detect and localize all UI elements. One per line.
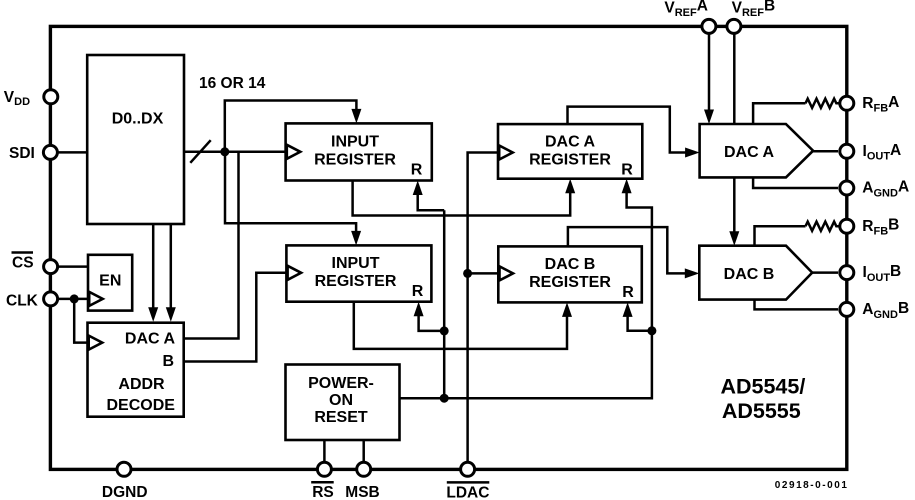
- svg-text:POWER-: POWER-: [308, 375, 374, 392]
- node CLK junction: [70, 294, 79, 303]
- wire VREFB to DAC B: [733, 177, 736, 233]
- wire DAC B register out to DAC B: [568, 227, 686, 273]
- svg-text:REGISTER: REGISTER: [529, 152, 611, 169]
- wire input register 1 data out to DAC A register: [353, 181, 571, 216]
- wire VREFA into DAC A: [708, 35, 711, 112]
- svg-text:DAC A: DAC A: [125, 331, 176, 348]
- svg-text:R: R: [622, 284, 634, 301]
- arrow into DAC A register R: [622, 179, 632, 194]
- svg-text:R: R: [411, 161, 423, 178]
- wire input register 1 R reset bend: [418, 194, 445, 210]
- wire SDI to D0..DX: [57, 151, 87, 154]
- svg-text:D0..DX: D0..DX: [112, 111, 164, 128]
- node reset right mid: [647, 326, 656, 335]
- svg-text:ADDR: ADDR: [118, 376, 165, 393]
- svg-text:LDAC: LDAC: [446, 485, 489, 500]
- svg-text:AD5545/: AD5545/: [720, 374, 805, 398]
- svg-text:VREFB: VREFB: [732, 0, 776, 19]
- svg-text:RFBB: RFBB: [862, 217, 899, 238]
- block input register 1: [286, 123, 432, 180]
- wire CLK to EN clock: [57, 298, 88, 301]
- pin RFBB: [840, 219, 854, 233]
- wire input register 2 data out to DAC B register: [354, 302, 567, 349]
- svg-text:R: R: [621, 162, 633, 179]
- pin IOUTB: [840, 266, 854, 280]
- block addr decode: [88, 323, 184, 417]
- svg-text:INPUT: INPUT: [332, 255, 380, 272]
- wire reset branch to DAC B register R: [628, 317, 652, 331]
- svg-text:DAC B: DAC B: [724, 266, 775, 283]
- wire power-on reset output: [400, 193, 652, 398]
- svg-text:RESET: RESET: [314, 409, 368, 426]
- svg-text:EN: EN: [99, 272, 121, 289]
- pin AGNDA: [840, 181, 854, 195]
- arrow into input register 1 R: [413, 181, 423, 196]
- wire DAC A tip to IOUTA: [812, 150, 838, 153]
- svg-text:AGNDA: AGNDA: [862, 179, 909, 200]
- pin RFBA: [840, 96, 854, 110]
- arrow into DAC B register R: [623, 302, 633, 317]
- svg-text:INPUT: INPUT: [331, 134, 379, 151]
- svg-text:16 OR 14: 16 OR 14: [199, 75, 266, 92]
- clock triangle addr decode: [89, 336, 103, 350]
- svg-text:SDI: SDI: [9, 145, 35, 162]
- wire CS to EN: [57, 265, 88, 268]
- svg-text:AD5555: AD5555: [722, 399, 801, 423]
- arrow into input register 2 top: [351, 231, 361, 246]
- pin AGNDB: [840, 302, 854, 316]
- bus slash 16 OR 14: [190, 140, 210, 163]
- arrow into DAC B: [685, 268, 700, 278]
- wire addr decode A output to input register 1 clock line: [184, 152, 239, 339]
- block DAC A register: [498, 124, 642, 179]
- wire CLK branch to addr decode clock: [74, 299, 87, 343]
- block DAC A: [700, 124, 814, 177]
- svg-text:DECODE: DECODE: [106, 397, 175, 414]
- block DAC B register: [498, 246, 642, 302]
- clock triangle DAC B register: [500, 266, 514, 280]
- wire LDAC branch to DAC B register clock: [468, 272, 499, 275]
- resistor RFBB: [806, 222, 839, 231]
- svg-text:02918-0-001: 02918-0-001: [775, 480, 849, 491]
- svg-text:REGISTER: REGISTER: [315, 273, 397, 290]
- wire D0..DX to addr decode line 1: [152, 224, 155, 309]
- node reset left mid: [440, 326, 449, 335]
- pin LDAC: [461, 462, 475, 476]
- wire RS stub: [323, 440, 326, 461]
- wire MSB stub: [362, 440, 365, 461]
- resistor RFBA: [806, 99, 839, 108]
- wire DAC B to AGNDB: [755, 300, 839, 310]
- wire reset vertical left: [443, 210, 446, 398]
- svg-text:VREFA: VREFA: [664, 0, 708, 19]
- pin VREFB: [727, 19, 741, 33]
- pin CLK: [44, 292, 58, 306]
- clock triangle input register 1: [287, 145, 301, 159]
- wire LDAC vertical: [468, 153, 498, 463]
- svg-text:B: B: [162, 353, 174, 370]
- arrow VREFA into DAC A top: [704, 110, 714, 125]
- wire DAC B tip to IOUTB: [811, 271, 838, 274]
- node bus junction: [220, 147, 229, 156]
- block DAC B: [699, 246, 812, 300]
- chip outer border: [50, 26, 846, 469]
- wire VREFB through DAC A: [733, 35, 736, 125]
- arrow into addr decode top 2: [166, 307, 176, 322]
- svg-text:RFBA: RFBA: [862, 94, 899, 115]
- svg-text:REGISTER: REGISTER: [529, 274, 611, 291]
- wire bus D0..DX to input register 1 clock: [184, 151, 286, 154]
- wire bus branch down to input register 2 data: [225, 152, 356, 233]
- pin VREFA: [702, 19, 716, 33]
- svg-text:DGND: DGND: [102, 484, 148, 500]
- wire D0..DX to addr decode line 2: [170, 224, 173, 309]
- wire DAC A to RFBA: [753, 103, 805, 124]
- node LDAC to DAC B register clock: [463, 269, 472, 278]
- block input register 2: [286, 245, 431, 301]
- pin DGND: [117, 462, 131, 476]
- node reset on POR line: [440, 394, 449, 403]
- svg-text:R: R: [412, 283, 424, 300]
- wire bus branch up to input register 1 data: [225, 101, 357, 152]
- block D0..DX shift register: [87, 55, 184, 224]
- arrow into DAC B register bottom: [562, 302, 572, 317]
- svg-text:REGISTER: REGISTER: [314, 152, 396, 169]
- arrow into addr decode top 1: [148, 307, 158, 322]
- svg-text:ON: ON: [329, 392, 353, 409]
- svg-text:IOUTA: IOUTA: [863, 142, 902, 163]
- wire input register 2 R reset bend: [419, 315, 445, 331]
- svg-text:DAC A: DAC A: [545, 134, 596, 151]
- pin CS: [44, 260, 58, 274]
- svg-text:CLK: CLK: [6, 293, 39, 310]
- svg-text:CS: CS: [12, 255, 34, 272]
- svg-text:AGNDB: AGNDB: [862, 300, 909, 321]
- block EN: [88, 255, 132, 311]
- block power-on reset: [286, 365, 400, 441]
- pin SDI: [43, 145, 57, 159]
- svg-text:MSB: MSB: [345, 484, 379, 500]
- clock triangle input register 2: [288, 266, 302, 280]
- arrow into DAC A register bottom: [565, 179, 575, 194]
- pin IOUTA: [840, 144, 854, 158]
- wire addr decode B output to input register 2 clock: [184, 273, 287, 362]
- arrow into DAC A: [685, 148, 700, 158]
- svg-text:RS: RS: [312, 484, 334, 500]
- svg-text:DAC A: DAC A: [724, 144, 775, 161]
- pin VDD: [44, 90, 58, 104]
- pin RS: [317, 462, 331, 476]
- clock triangle DAC A register: [499, 146, 513, 160]
- svg-text:VDD: VDD: [4, 89, 30, 108]
- svg-text:IOUTB: IOUTB: [863, 263, 902, 284]
- arrow into input register 2 R: [414, 302, 424, 317]
- clock triangle EN: [89, 292, 103, 306]
- pin MSB: [357, 462, 371, 476]
- wire DAC B to RFBB: [755, 226, 806, 246]
- wire DAC A register out to DAC A: [568, 107, 687, 153]
- arrow into input register 1 top: [351, 109, 361, 124]
- arrow VREFB into DAC B top: [729, 231, 739, 246]
- wire DAC A to AGNDA: [753, 177, 838, 188]
- svg-text:DAC B: DAC B: [545, 256, 596, 273]
